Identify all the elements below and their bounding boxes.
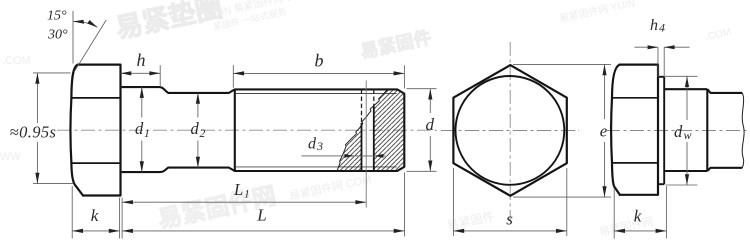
pin hole centerline / L1 extension bbox=[365, 81, 367, 208]
svg-text:4: 4 bbox=[659, 21, 665, 35]
dimension e bbox=[513, 64, 611, 197]
shank profile: d1 collar, d2 shank, threaded end bbox=[122, 87, 405, 172]
washer face flange bbox=[658, 77, 664, 184]
extension lines bottom left view bbox=[72, 173, 404, 239]
thread minor diameter thin lines bbox=[236, 94, 397, 167]
svg-text:L: L bbox=[233, 180, 243, 199]
head facet lines right view bbox=[612, 98, 658, 163]
svg-text:L: L bbox=[256, 206, 266, 225]
svg-text:d: d bbox=[135, 119, 144, 138]
svg-text:k: k bbox=[634, 207, 642, 226]
dimension b bbox=[233, 65, 404, 88]
svg-text:e: e bbox=[600, 122, 608, 141]
svg-text:.COM: .COM bbox=[2, 55, 31, 67]
dimension d1 bbox=[141, 87, 143, 172]
svg-text:k: k bbox=[91, 206, 99, 225]
svg-text:h: h bbox=[137, 50, 146, 70]
svg-text:2: 2 bbox=[200, 128, 206, 140]
head facet lines left view bbox=[71, 98, 120, 163]
angle dimension 15/30 deg bbox=[73, 11, 106, 72]
svg-text:3: 3 bbox=[316, 139, 323, 153]
svg-text:d: d bbox=[426, 115, 435, 134]
hatching right of pin hole bbox=[374, 90, 404, 171]
chamfer circle bbox=[456, 76, 565, 185]
svg-text:30°: 30° bbox=[47, 28, 68, 43]
hex head outline left view bbox=[70, 65, 120, 196]
svg-text:b: b bbox=[315, 51, 324, 71]
svg-text:WW: WW bbox=[0, 151, 21, 163]
svg-text:15°: 15° bbox=[47, 9, 67, 24]
svg-text:d: d bbox=[191, 119, 200, 138]
centerline vertical bbox=[509, 42, 511, 220]
dimension dw bbox=[665, 76, 698, 185]
break-out section wavy line bbox=[337, 89, 389, 170]
hexagon bbox=[453, 65, 566, 196]
pin hole hidden/section edge right bbox=[373, 89, 375, 106]
dimension d bbox=[407, 89, 437, 172]
thread start boundary line bbox=[234, 89, 236, 171]
svg-text:d: d bbox=[674, 122, 683, 141]
svg-text:1: 1 bbox=[244, 189, 250, 201]
svg-text:≈0.95s: ≈0.95s bbox=[10, 123, 57, 142]
hatching left wedge of break-out bbox=[337, 125, 361, 171]
dimension h4 bbox=[635, 47, 690, 77]
dimension k right view bbox=[614, 186, 666, 239]
dimension h bbox=[121, 65, 161, 87]
dimension L1 bbox=[122, 201, 366, 203]
svg-text:s: s bbox=[506, 210, 513, 229]
centerline horizontal bbox=[441, 130, 579, 132]
dimension d3 pin hole bbox=[302, 155, 386, 157]
svg-text:h: h bbox=[650, 17, 658, 34]
rod break line bbox=[742, 93, 744, 168]
dimension 0.95s bbox=[33, 73, 74, 184]
dimension L bbox=[122, 230, 404, 232]
d1 collar right view bbox=[664, 89, 707, 171]
dimension k left view bbox=[72, 230, 119, 232]
svg-text:d: d bbox=[308, 136, 317, 153]
svg-text:1: 1 bbox=[144, 128, 150, 140]
shank rod right view with break bbox=[707, 89, 742, 171]
pin hole hidden/section edge left bbox=[361, 89, 363, 123]
centerline bolt axis bbox=[57, 129, 437, 131]
dimension s bbox=[453, 168, 566, 236]
dimension d2 bbox=[197, 93, 199, 168]
head outline right view bbox=[611, 65, 658, 195]
centerline right view bbox=[606, 130, 750, 132]
svg-text:w: w bbox=[684, 128, 692, 142]
